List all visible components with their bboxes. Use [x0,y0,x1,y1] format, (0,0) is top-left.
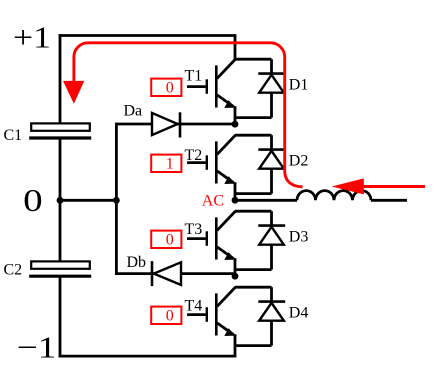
wire: D3 branch top [235,210,272,213]
wire: T1 emitter lead [234,106,237,124]
wire: +1 top bus rail [59,34,237,37]
wire: D4 anode lead [270,321,273,346]
red current path (from +1 bus through T1/T2 to AC) [74,43,303,187]
wire: Da anode wire [116,123,235,126]
wire: left DC rail middle (C1 to C2 through node 0) [59,138,62,262]
svg-text:Db: Db [127,254,147,271]
svg-text:C2: C2 [4,262,23,279]
svg-text:AC: AC [202,192,224,209]
svg-text:0: 0 [166,232,174,249]
diode D4 [258,302,285,321]
svg-text:0: 0 [23,182,43,218]
svg-text:T1: T1 [185,67,203,84]
capacitor C1 top plate [31,123,90,130]
wire: left DC rail lower (C2 to -1) [59,276,62,357]
diode Db [152,261,181,286]
svg-text:Da: Da [124,102,143,119]
wire: top bus drop to T1 collector [234,36,237,61]
wire: D3 branch bottom [235,268,272,271]
wire: -1 bottom bus rail [59,355,237,358]
transistor T4 (IGBT) [187,287,235,336]
wire: D2 anode lead [270,169,273,194]
wire: D1 anode lead [270,93,273,118]
wire: T4 emitter lead [234,334,237,356]
wire: node 0 horizontal [60,199,116,202]
wire: D1 branch top [235,58,272,61]
wire: D4 branch bottom [235,344,272,347]
wire: clamp branch vertical (Da to Db) [115,123,118,275]
svg-text:+1: +1 [13,20,51,55]
wire: D2 cathode lead [270,135,273,149]
capacitor C1 bottom plate [29,136,91,139]
wire: AC output lead [235,199,297,202]
transistor T2 (IGBT) [187,135,235,184]
capacitor C2 bottom plate [29,275,91,278]
state box for T1 [151,79,181,96]
wire: D1 branch bottom [235,116,272,119]
svg-text:C1: C1 [4,127,23,144]
wire: Db cathode wire [116,272,235,275]
diode Da [152,112,180,137]
wire: D4 cathode lead [270,287,273,301]
junction dot: node AC junction [232,197,239,204]
diode D1 [258,74,285,93]
junction dot: node between T1 and T2 (Da clamp point) [232,121,239,128]
svg-text:T3: T3 [185,221,203,238]
wire: D2 branch bottom [235,192,272,195]
wire: D3 anode lead [270,245,273,270]
capacitor C2 top plate [31,261,90,268]
wire: left DC rail upper (+1 to C1) [59,34,62,124]
junction dot: node 0 clamp branch [113,197,120,204]
svg-text:0: 0 [166,308,174,325]
junction dot: node 0 on left rail [57,197,64,204]
red current direction arrow at AC output [332,178,425,194]
transistor T3 (IGBT) [187,211,235,260]
wire: T2 emitter lead [234,182,237,200]
wire: T3 emitter lead [234,258,237,276]
svg-text:D2: D2 [289,153,309,170]
svg-text:T4: T4 [185,297,203,314]
svg-text:0: 0 [166,80,174,97]
diode D2 [258,150,285,169]
state box for T4 [151,307,181,324]
state box for T2 [151,155,181,172]
state box for T3 [151,231,181,248]
wire: D2 branch top [235,134,272,137]
svg-text:D1: D1 [289,77,309,94]
wire: D3 cathode lead [270,211,273,225]
inductor L (4 bumps) [297,191,371,201]
wire: D1 cathode lead [270,59,273,73]
svg-text:D4: D4 [289,305,309,322]
red current path arrowhead (downward) [63,81,84,104]
transistor T1 (IGBT) [187,59,235,108]
svg-text:T2: T2 [185,147,203,164]
svg-text:−1: −1 [17,330,57,365]
wire: D4 branch top [235,286,272,289]
junction dot: node between T3 and T4 (Db clamp point) [232,273,239,280]
wire: output after inductor [371,199,407,202]
svg-text:D3: D3 [289,229,309,246]
svg-text:1: 1 [166,156,174,173]
diode D3 [258,226,285,245]
